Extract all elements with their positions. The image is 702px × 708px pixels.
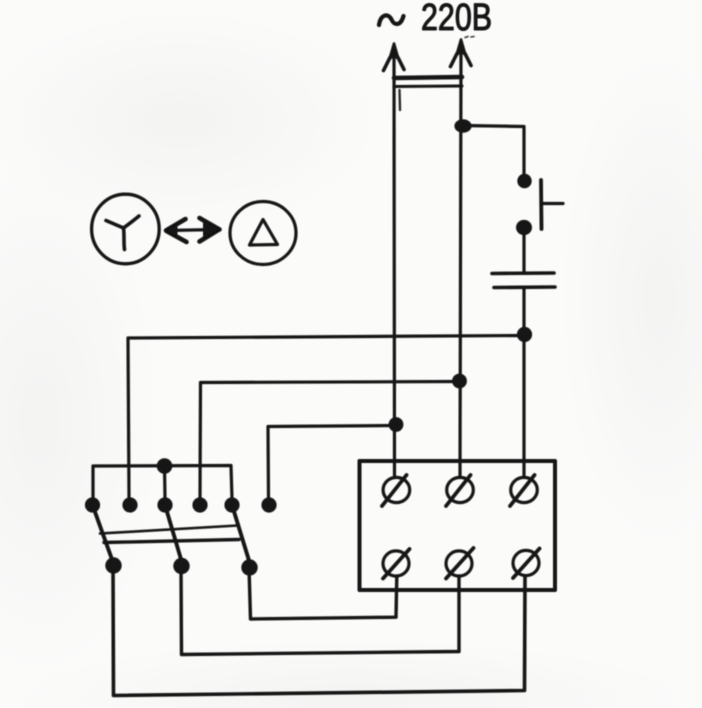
switch SA1 upper contacts 1-6	[85, 497, 277, 512]
star connection symbol	[92, 194, 160, 264]
wire pole 3 to motor terminal bottom-left	[249, 567, 397, 619]
wire from L1 lower junction to switch contact 6	[268, 426, 396, 500]
wire pole 1 to motor terminal bottom-right	[113, 565, 525, 696]
wire from L2 junction to push-button SB1	[462, 126, 524, 177]
motor terminal C2 top-middle	[446, 475, 473, 506]
supply line L1 with up arrow	[384, 44, 405, 478]
junction node on L1 lower	[389, 417, 404, 432]
switch SA1 pole contacts	[105, 557, 257, 575]
junction node on L2 to button branch	[454, 119, 471, 133]
supply double bar	[394, 77, 462, 110]
wire from C1 junction to switch contact 2	[128, 336, 524, 500]
push-button SB1	[516, 174, 563, 235]
label ~220V supply	[379, 0, 492, 39]
motor terminal C1 top-left	[382, 475, 410, 506]
junction node below C1	[517, 327, 532, 342]
change-over arrow	[166, 218, 220, 242]
motor terminal C6 bottom-right	[513, 549, 540, 579]
motor terminal C3 top-right	[510, 475, 537, 506]
capacitor C1	[492, 273, 555, 288]
svg-text:220В: 220В	[421, 0, 492, 39]
wire C1 down to motor terminal C2	[522, 289, 525, 478]
wire SB1 to capacitor C1	[522, 233, 525, 272]
motor terminal box XT1	[360, 461, 556, 590]
junction node on L2 lower	[452, 374, 467, 389]
switch SA1 insulating tie bar	[100, 526, 239, 543]
wire from L2 lower junction to switch contact 4	[200, 382, 459, 500]
wire pole 2 to motor terminal bottom-middle	[181, 566, 459, 655]
delta connection symbol	[230, 202, 296, 265]
motor terminal C4 bottom-left	[383, 549, 410, 579]
motor terminal C5 bottom-middle	[446, 548, 474, 579]
supply line L2 with up arrow	[451, 37, 475, 478]
switch SA1 blades	[93, 505, 252, 567]
star-point link bar of switch SA1	[93, 458, 232, 499]
